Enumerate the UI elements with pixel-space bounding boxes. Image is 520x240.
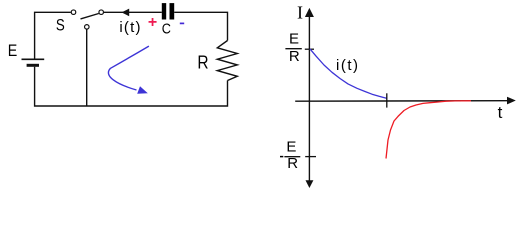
switch contact circle lower xyxy=(85,25,90,30)
current direction arrowhead on top wire xyxy=(122,9,130,17)
battery E long plate xyxy=(22,58,45,60)
svg-text:i(t): i(t) xyxy=(336,57,360,74)
fraction -E/R xyxy=(280,156,283,158)
red charging curve xyxy=(386,101,471,159)
svg-text:E: E xyxy=(8,41,17,60)
wire capacitor to top-right corner xyxy=(174,12,227,40)
switch contact circle left xyxy=(71,10,76,15)
battery E short plate xyxy=(27,64,39,67)
blue decay curve i(t) xyxy=(310,49,387,98)
svg-text:+: + xyxy=(148,14,157,31)
svg-text:R: R xyxy=(287,155,298,172)
switch S blade xyxy=(81,14,99,19)
svg-text:R: R xyxy=(289,48,300,65)
tick E/R xyxy=(305,48,314,50)
wire resistor bottom to bottom-left xyxy=(35,67,228,106)
capacitor C left plate xyxy=(162,3,166,19)
tick -E/R xyxy=(305,156,316,158)
capacitor C right plate xyxy=(170,3,175,19)
svg-text:R: R xyxy=(197,52,208,72)
axis horizontal t xyxy=(295,100,508,103)
svg-text:E: E xyxy=(289,31,299,48)
label - (blue) xyxy=(180,22,184,24)
curve end tick xyxy=(386,93,388,107)
wire top-left segment xyxy=(35,12,71,59)
svg-text:t: t xyxy=(498,103,503,122)
wire switch to capacitor xyxy=(104,11,162,13)
wire switch lower contact down xyxy=(86,29,88,106)
svg-text:i(t): i(t) xyxy=(119,19,141,36)
switch contact circle right xyxy=(99,10,104,15)
blue discharge loop arrow xyxy=(108,46,148,90)
svg-text:C: C xyxy=(162,20,171,37)
svg-text:S: S xyxy=(56,15,65,34)
svg-text:I: I xyxy=(297,3,303,23)
svg-text:E: E xyxy=(286,139,296,156)
axis vertical I xyxy=(308,16,310,181)
resistor R zigzag xyxy=(217,41,237,81)
